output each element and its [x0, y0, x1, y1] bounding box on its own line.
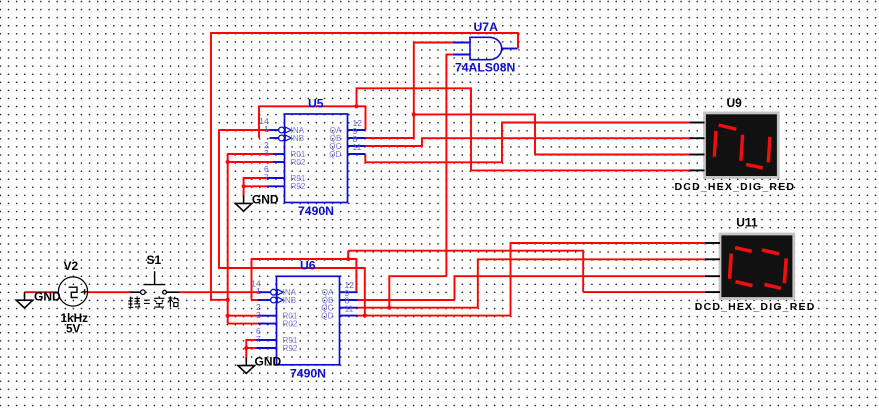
- wire U6.QD to U5.INA horizontal (node B): [218, 267, 365, 269]
- U9 segment upper-left: [714, 131, 716, 157]
- junction U5.R02 on reset net: [226, 160, 230, 164]
- U6 pin INB clock triangle: [277, 297, 283, 303]
- wire U5.R92 horizontal: [244, 185, 268, 187]
- ground U5 triangle: [235, 203, 252, 211]
- wire U6.QD riser to U11: [510, 242, 512, 316]
- source V2 clock voltage body: [58, 277, 87, 306]
- U11 input lead 1: [705, 242, 720, 244]
- wire U5.QC horizontal: [366, 145, 423, 147]
- switch S1 left lead: [130, 291, 141, 293]
- U7A input2 stub: [453, 54, 470, 56]
- wire U6.QB riser to U11: [454, 275, 456, 300]
- U6 pin R01 stub: [258, 315, 277, 317]
- wire reset-net drop (node A): [210, 32, 212, 300]
- wire U6.QC branch riser: [388, 275, 390, 307]
- wire U6.R02 horizontal: [228, 323, 266, 325]
- wire U5.R91 horizontal: [244, 177, 268, 179]
- label key=space of S1 (drawn glyphs): [128, 296, 179, 307]
- U9 segment middle: [741, 135, 743, 161]
- junction U6.R92 on ground: [244, 346, 248, 350]
- wire U5.QC jog riser: [421, 137, 423, 146]
- wire U5.R01 horizontal: [228, 153, 274, 155]
- wire U5.QA feedback horizontal: [259, 105, 366, 107]
- U11 segment lower-right: [784, 258, 786, 283]
- U6 pin INB bubble: [271, 297, 277, 303]
- wire U6.R91 horizontal: [246, 339, 261, 341]
- switch S1 right contact: [163, 290, 167, 294]
- U5 pin QB stub: [348, 137, 366, 139]
- U5 pin R01 stub: [273, 153, 285, 155]
- svg-text:U7A: U7A: [474, 20, 499, 34]
- wire U9 input4 horizontal from U5.QA: [471, 169, 691, 171]
- wire U5.QA feedback drop to INB: [258, 105, 260, 138]
- wire U6.QC riser to U7A input2: [445, 54, 447, 277]
- svg-text:INB: INB: [291, 134, 305, 143]
- display U9 DCD_HEX body: [705, 113, 779, 177]
- wire GND to V2: [25, 291, 60, 293]
- svg-text:QD: QD: [329, 150, 341, 159]
- wire U5.QA branch top horizontal: [357, 87, 472, 89]
- U11 input lead 2: [705, 258, 720, 260]
- wire U6 ground drop: [245, 339, 247, 358]
- svg-text:U6: U6: [300, 259, 316, 273]
- wire U5.QD riser: [501, 122, 503, 163]
- switch S1 left contact: [141, 290, 146, 295]
- U9 input lead 3: [690, 154, 705, 156]
- IC U6 7490N body: [277, 276, 340, 365]
- wire U6.QD riser to node B: [364, 267, 366, 316]
- svg-text:R92: R92: [283, 344, 298, 353]
- junction U6.QC branch: [387, 306, 391, 310]
- junction U5.QB branch: [412, 112, 416, 116]
- U5 pin QD stub: [348, 153, 366, 155]
- U11 input lead 4: [705, 291, 720, 293]
- svg-text:V2: V2: [64, 259, 79, 273]
- switch S1 actuator bar: [143, 284, 165, 286]
- wire U6.QC horizontal: [357, 307, 478, 309]
- U5 pin INA clock triangle: [285, 127, 291, 133]
- svg-text:GND: GND: [34, 290, 61, 304]
- U5 pin R91 stub: [268, 177, 285, 179]
- wire U6.INB horizontal: [252, 299, 263, 301]
- U6 pin QC stub: [340, 307, 358, 309]
- wire U11 input4 horizontal from U6.QA: [583, 291, 705, 293]
- U5 pin QC stub: [348, 145, 366, 147]
- U6 pin R91 stub: [257, 339, 277, 341]
- wire U11 input2 horizontal from U6.QC: [478, 258, 706, 260]
- wire node A jog to node C: [210, 299, 228, 301]
- svg-text:1: 1: [264, 124, 269, 134]
- ground U6 stem: [245, 358, 247, 366]
- wire reset-net top from U7A output: [211, 32, 519, 34]
- wire S1 to U6.INA: [179, 291, 262, 293]
- svg-text:R02: R02: [283, 319, 298, 328]
- wire U5.QB horizontal: [365, 137, 414, 139]
- U9 input lead 4: [690, 169, 705, 171]
- junction U5.QA branch: [354, 104, 358, 108]
- U11 segment bottom-right bar: [764, 284, 781, 288]
- U11 input lead 3: [705, 275, 720, 277]
- U7A output stub: [502, 48, 518, 50]
- IC U5 7490N body: [285, 114, 348, 203]
- wire U9 input2 horizontal from U5.QC: [422, 137, 691, 139]
- svg-text:7490N: 7490N: [290, 366, 326, 380]
- junction U6.QD on node B riser: [363, 314, 367, 318]
- wire U5.QD jog down: [364, 154, 366, 162]
- switch S1 right lead: [167, 291, 180, 293]
- U9 input lead 1: [690, 122, 705, 124]
- wire U9 input3 horizontal: [535, 154, 691, 156]
- wire U5 ground drop: [243, 177, 245, 196]
- junction U6.QA branch: [346, 257, 350, 261]
- svg-text:7: 7: [256, 334, 261, 344]
- svg-text:U5: U5: [308, 96, 324, 110]
- svg-text:7: 7: [264, 173, 269, 183]
- svg-text:GND: GND: [252, 192, 279, 206]
- U6 pin INA clock triangle: [277, 289, 283, 295]
- switch S1 actuator stem: [154, 271, 156, 284]
- U9 input lead 2: [690, 137, 705, 139]
- op-amp/gate U7A 74ALS08N AND gate body: [470, 37, 502, 59]
- U11 segment bottom-left bar: [736, 282, 753, 286]
- svg-text:3: 3: [256, 310, 261, 320]
- ground U6 triangle: [238, 366, 255, 374]
- U6 pin QD stub: [340, 315, 358, 317]
- svg-text:1: 1: [256, 286, 261, 296]
- svg-text:DCD_HEX_DIG_RED: DCD_HEX_DIG_RED: [695, 301, 816, 313]
- wire U6.QA branch horizontal: [348, 250, 583, 252]
- svg-text:DCD_HEX_DIG_RED: DCD_HEX_DIG_RED: [675, 181, 796, 193]
- U5 pin INA stub: [270, 129, 279, 131]
- U9 segment top bar: [719, 125, 737, 129]
- U5 pin R02 stub: [273, 161, 285, 163]
- svg-text:11: 11: [345, 303, 354, 313]
- wire U5.QB branch to U9 horizontal: [414, 113, 535, 115]
- wire U6.QA feedback horizontal: [252, 258, 357, 260]
- svg-text:INB: INB: [283, 296, 297, 305]
- svg-text:74ALS08N: 74ALS08N: [455, 61, 515, 75]
- wire U6.R01 horizontal: [228, 315, 266, 317]
- svg-text:5V: 5V: [66, 322, 81, 336]
- ground V2 stem: [24, 292, 26, 300]
- U6 pin QB stub: [340, 299, 358, 301]
- U6 pin R92 stub: [257, 347, 277, 349]
- wire U6.QC branch horizontal to U7A: [389, 275, 446, 277]
- svg-text:3: 3: [264, 148, 269, 158]
- V2 plus sign: [82, 289, 87, 294]
- svg-text:QD: QD: [321, 311, 333, 320]
- display U11 DCD_HEX body: [720, 234, 794, 299]
- U5 pin INA bubble: [279, 127, 285, 133]
- wire reset-net drop (node C): [227, 153, 229, 324]
- wire U5.QD horizontal: [365, 161, 503, 163]
- U6 pin INB stub: [258, 299, 271, 301]
- wire U9 input3 riser: [534, 114, 536, 155]
- wire U5.INA drop (node B): [218, 129, 220, 268]
- wire U5.QA to U9 riser: [470, 87, 472, 170]
- svg-text:R02: R02: [291, 158, 306, 167]
- wire U7A output riser: [517, 32, 519, 48]
- wire U11 input3 horizontal from U6.QB: [455, 275, 706, 277]
- wire U6.QB horizontal: [357, 299, 455, 301]
- junction U6.R01 on reset net: [226, 314, 230, 318]
- U11 segment top-left bar: [735, 248, 752, 252]
- wire U6.QA branch riser: [347, 251, 349, 260]
- U5 pin INB stub: [270, 137, 279, 139]
- wire U5.QB riser to U7A input1: [413, 42, 415, 139]
- wire U6.QA jog drop: [582, 250, 584, 292]
- wire V2 to S1: [87, 291, 131, 293]
- U5 pin INB clock triangle: [285, 135, 291, 141]
- U5 pin QA stub: [348, 129, 366, 131]
- U6 pin QA stub: [340, 291, 358, 293]
- U6 pin R02 stub: [258, 323, 277, 325]
- U11 segment top-right bar: [762, 250, 779, 254]
- U11 segment upper-left: [730, 254, 732, 279]
- U7A input1 stub: [453, 42, 470, 44]
- U5 pin INB bubble: [279, 135, 285, 141]
- wire U7A input1 horizontal: [414, 42, 453, 44]
- wire U6.QA riser: [355, 258, 357, 292]
- U5 pin R92 stub: [268, 185, 285, 187]
- wire U11 input1 horizontal from U6.QD: [511, 242, 706, 244]
- wire U5.INA horizontal: [219, 129, 270, 131]
- svg-text:S1: S1: [147, 253, 162, 267]
- ground U5 stem: [243, 195, 245, 203]
- wire U6.QC riser to U11: [477, 258, 479, 307]
- U9 segment bottom bar: [746, 164, 763, 168]
- junction U5.R92 on ground: [242, 184, 246, 188]
- wire U5.QA riser: [365, 105, 367, 130]
- svg-text:U9: U9: [727, 96, 743, 110]
- wire U5.R02 horizontal: [228, 161, 274, 163]
- wire U5.QA branch riser: [356, 87, 358, 106]
- svg-text:R92: R92: [291, 182, 306, 191]
- svg-text:U11: U11: [736, 215, 758, 229]
- V2 square wave glyph: [69, 287, 78, 297]
- svg-text:GND: GND: [255, 354, 282, 368]
- svg-text:11: 11: [353, 142, 362, 152]
- wire U6.QA feedback drop to INB: [251, 258, 253, 300]
- U6 pin INA bubble: [271, 289, 277, 295]
- U6 pin INA stub: [258, 291, 271, 293]
- wire U6.R92 horizontal: [246, 347, 261, 349]
- ground V2 triangle: [16, 300, 33, 308]
- wire U6.QD horizontal: [357, 315, 511, 317]
- junction node A on reset net: [226, 298, 230, 302]
- U9 segment lower-right: [768, 137, 770, 163]
- wire U9 input1 horizontal from U5.QD: [502, 122, 691, 124]
- svg-text:7490N: 7490N: [298, 204, 334, 218]
- wire U7A input2 horizontal: [446, 54, 452, 56]
